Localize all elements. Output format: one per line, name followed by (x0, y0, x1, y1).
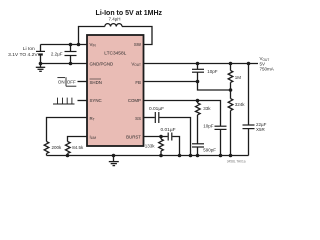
svg-text:33k: 33k (203, 106, 211, 111)
node BURST dot (159, 135, 163, 139)
resistor R3 33k (197, 101, 199, 104)
resistor R1 1M (230, 64, 232, 71)
wire BURST + resistor R6 133k (144, 136, 168, 138)
capacitor C2 plates (192, 68, 204, 70)
resistor R4 200k + RT stub (47, 118, 88, 142)
resistor R2 324k (230, 90, 232, 99)
battery plate long (36, 50, 45, 52)
svg-text:COMP: COMP (128, 98, 141, 103)
inductor L1 7.4uH (105, 24, 122, 27)
wire riser to inductor rail (79, 27, 105, 45)
switch ON/OFF symbol (57, 77, 65, 79)
svg-text:7.4µH: 7.4µH (108, 16, 120, 21)
capacitor C2 10pF stems (197, 64, 199, 70)
svg-text:133k: 133k (145, 143, 156, 148)
svg-text:10pF: 10pF (203, 123, 214, 128)
IC U1 LTC3458L body (87, 35, 144, 146)
svg-text:ILIM: ILIM (90, 134, 97, 140)
svg-text:0.01µF: 0.01µF (160, 127, 175, 133)
wire FB jog to divider (198, 82, 231, 91)
capacitor C4 10pF (COMP) plates (215, 125, 227, 127)
ground (main rail) (113, 156, 115, 162)
node COMP dot (196, 99, 200, 103)
svg-text:750mA: 750mA (260, 67, 274, 72)
svg-text:X5R: X5R (256, 127, 266, 132)
wire COMP (144, 101, 221, 127)
svg-text:BURST: BURST (126, 134, 141, 139)
svg-text:SYNC: SYNC (90, 98, 102, 103)
svg-text:GND/PGND: GND/PGND (90, 61, 114, 66)
capacitor C7 0.01uF (BURST) plates (167, 133, 169, 141)
svg-text:200k: 200k (52, 145, 63, 150)
svg-text:22µF: 22µF (256, 122, 267, 127)
svg-text:324k: 324k (235, 102, 246, 107)
node bottom rail dots (66, 154, 70, 158)
svg-text:Li-Ion to 5V at 1MHz: Li-Ion to 5V at 1MHz (96, 10, 163, 17)
battery BT1 stems (40, 45, 42, 52)
battery plate short (38, 53, 43, 55)
svg-text:Li Ion: Li Ion (23, 46, 35, 52)
wire bottom rail (47, 155, 249, 157)
wire GND bottom-left (41, 63, 88, 65)
svg-text:FB: FB (135, 80, 141, 85)
ground (battery) (40, 64, 42, 68)
wire SS + capacitor C6 0.01uF (144, 117, 155, 119)
node VIN junction dots (69, 43, 73, 47)
svg-text:1M: 1M (235, 75, 242, 80)
node VOUT rail dots (196, 62, 200, 66)
svg-text:RT: RT (90, 116, 95, 122)
svg-text:LTC3458L: LTC3458L (104, 51, 126, 57)
svg-text:2.2µF: 2.2µF (51, 51, 63, 56)
capacitor C5 plates (243, 124, 255, 126)
svg-text:VOUT: VOUT (131, 61, 141, 67)
svg-text:10pF: 10pF (207, 69, 218, 74)
capacitor C5 22uF stems (248, 64, 250, 125)
wire VIN top (41, 44, 88, 46)
capacitor C3 590pF plates (192, 143, 204, 145)
wire VOUT rail (144, 63, 259, 65)
resistor R5 84.5k + ILIM stub (68, 137, 88, 142)
wire rail to SW (122, 27, 152, 45)
node FB dots (196, 80, 200, 84)
sync pulse symbol (53, 98, 75, 104)
wire SHDN stub (78, 81, 88, 83)
svg-text:SW: SW (134, 42, 142, 47)
svg-text:VIN: VIN (90, 42, 97, 48)
node GND junction dots (39, 62, 43, 66)
wire FB stub (144, 81, 198, 83)
svg-text:590pF: 590pF (203, 148, 216, 153)
svg-text:0.01µF: 0.01µF (149, 106, 164, 112)
svg-text:SS: SS (135, 116, 141, 121)
capacitor C1 plates (65, 51, 77, 53)
svg-text:3.1V TO 4.2V: 3.1V TO 4.2V (8, 52, 38, 58)
svg-text:SHDN: SHDN (90, 80, 102, 85)
wire SYNC stub (78, 100, 88, 102)
svg-text:84.5k: 84.5k (72, 145, 84, 150)
capacitor C1 2.2uF stems (70, 45, 72, 52)
svg-text:3458L TA01a: 3458L TA01a (227, 159, 246, 163)
svg-text:OFF: OFF (67, 79, 76, 84)
svg-text:ON: ON (58, 79, 65, 84)
